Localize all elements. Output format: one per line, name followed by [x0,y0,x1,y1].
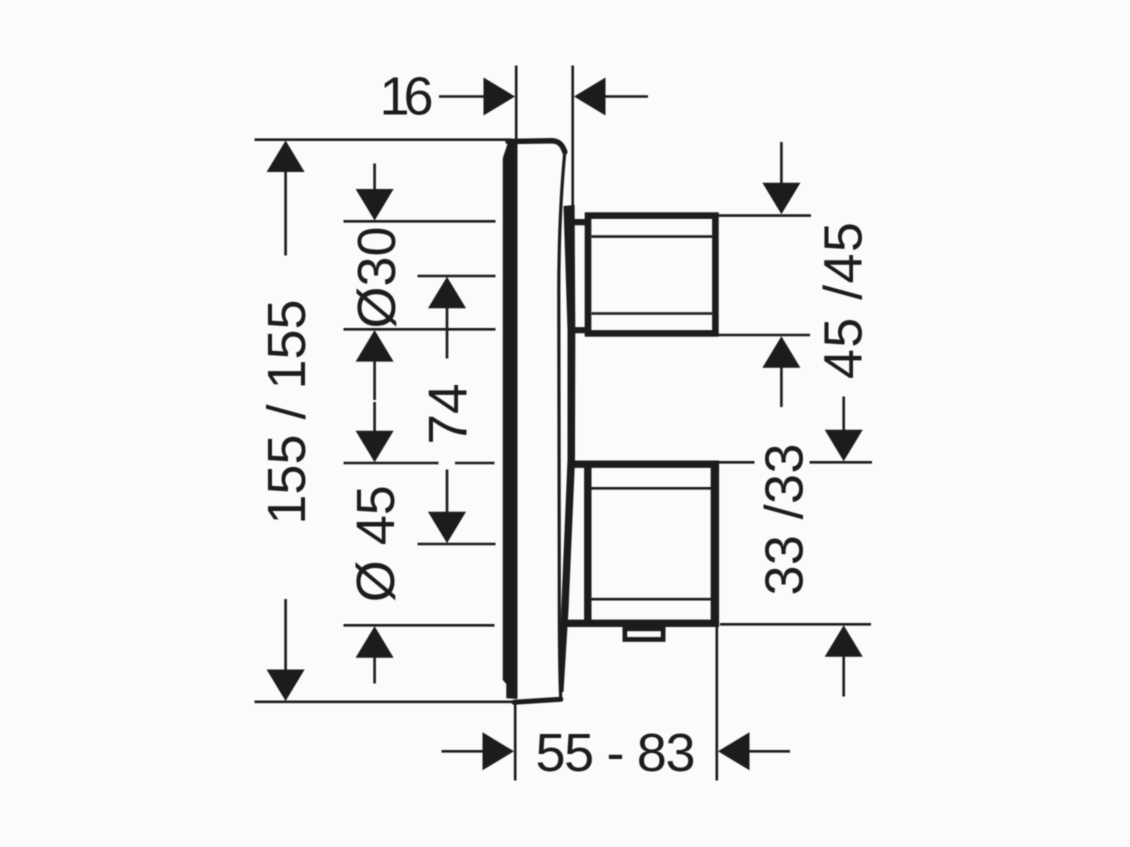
dim 16: left-pointing arrowhead [574,78,606,116]
dim Ø45: up arrowhead + tail [356,626,394,658]
wire: plate-front extension line (16 dim left) [515,66,518,141]
dim 16: leader line left [439,95,485,98]
dim Ø30: top boundary line [344,220,496,223]
dim 74: down arrowhead + tail [446,470,449,513]
lower knob bottom edge [566,620,715,627]
upper knob neck bottom [571,327,589,333]
svg-text:33 /33: 33 /33 [755,444,815,596]
dim 55-83: left-pointing arrowhead + right leader [718,732,750,770]
dim Ø30: bottom boundary line [344,328,496,331]
dim Ø30: down arrowhead + tail [373,164,376,192]
wire: wall extension line (16 dim right) [571,66,574,212]
dim 33/33: top line (broken) [719,461,755,464]
dim 45/45: up arrowhead + tail [762,336,800,368]
lower knob left edge [584,461,591,626]
upper knob outline [588,216,715,334]
lower knob bottom tab [625,629,663,639]
dim 55-83: left extension line [514,700,517,781]
plate top edge [508,141,565,152]
svg-text:74: 74 [417,383,479,444]
valve sleeve [560,205,576,692]
dim 45/45: down arrowhead + tail [780,142,783,184]
lower knob right edge [711,461,719,628]
svg-text:Ø30: Ø30 [347,226,407,328]
upper knob inner top line [592,235,713,238]
plate back edge [559,152,565,699]
dim 33/33: up arrowhead + tail [825,625,863,657]
dim 55-83: right extension line [715,627,718,781]
dim 45/45: top line [717,214,812,217]
lower knob inner bottom line [592,598,712,601]
lower knob inner top line [592,487,712,490]
plate front face [503,143,518,699]
svg-text:45 /45: 45 /45 [814,222,874,379]
dim 155/155: top dimension line [255,138,513,141]
dim Ø45: down arrowhead + tail [373,402,376,433]
svg-text:55 - 83: 55 - 83 [536,723,696,783]
lower knob top edge [574,461,715,468]
dim 55-83: left leader + right-pointing arrowhead [442,750,484,753]
upper knob neck top [571,219,589,225]
svg-text:Ø 45: Ø 45 [346,485,406,602]
dim 155/155: lower tail [284,599,287,671]
dim 16: right-pointing arrowhead [484,78,516,116]
dim 33/33: down arrowhead + tail [842,397,845,433]
dim Ø45: bottom boundary line [344,624,495,627]
svg-text:155 / 155: 155 / 155 [257,299,317,524]
dim 74: upper boundary line (knob1 center) [418,275,496,278]
dim 155/155: down arrowhead [267,670,305,702]
dim 33/33: bottom line [720,623,871,626]
dim Ø30: up arrowhead + tail [356,330,394,362]
dim 155/155: up arrowhead [267,141,305,173]
dim Ø45: top boundary line (broken) [344,462,439,465]
svg-text:16: 16 [380,67,434,127]
dim 155/155: bottom dimension line [255,700,513,703]
plate bottom edge [514,699,561,702]
dim 45/45: bottom line [715,334,810,337]
dim 74: up arrowhead + tail [428,277,466,309]
dim 155/155: upper tail [284,171,287,256]
dim 74: lower boundary line (knob2 center) [418,543,496,546]
upper knob inner bottom line [592,312,713,315]
dim 16: leader line right [605,95,648,98]
